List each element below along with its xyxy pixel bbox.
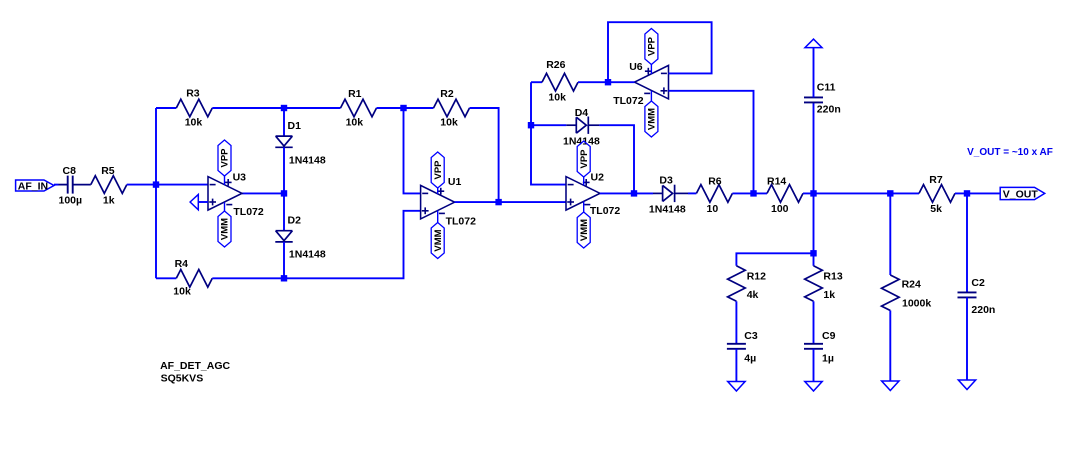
power flag VMM of U1 [431, 211, 444, 259]
wire node A vertical [155, 108, 157, 278]
svg-text:1N4148: 1N4148 [289, 248, 326, 260]
wire bottom rail left [156, 277, 176, 279]
wire R1 to R2 [377, 107, 434, 109]
svg-text:1N4148: 1N4148 [563, 136, 600, 148]
power arrow supply symbol [805, 39, 822, 48]
svg-text:C8: C8 [63, 165, 77, 177]
junction R1-R2 node [400, 105, 406, 111]
svg-text:C11: C11 [817, 82, 836, 94]
svg-text:D4: D4 [575, 107, 589, 119]
svg-text:U3: U3 [233, 171, 247, 183]
wire R7 to V_OUT [955, 192, 1000, 194]
resistor R4 10k [173, 258, 212, 298]
junction lower branch node [810, 250, 816, 256]
svg-text:R5: R5 [101, 165, 115, 177]
junction V_OUT node [964, 190, 970, 196]
svg-text:10k: 10k [548, 92, 566, 104]
wire U3 output [242, 192, 284, 194]
op-amp U1 TL072 [421, 176, 477, 227]
capacitor C11 220n [804, 82, 841, 116]
wire D1 cathode [283, 147, 285, 193]
svg-text:R2: R2 [440, 88, 454, 100]
svg-text:1µ: 1µ [822, 353, 834, 365]
wire C9 to ground [813, 349, 815, 382]
wire R14 to R7 [803, 192, 919, 194]
svg-text:VPP: VPP [579, 149, 590, 169]
wire U2 output to D3 [600, 192, 663, 194]
svg-text:R7: R7 [929, 174, 943, 186]
wire R1-R2 node to U1 - input [404, 108, 421, 193]
power flag VMM of U3 [218, 202, 231, 247]
svg-text:220n: 220n [971, 304, 995, 316]
power flag VPP of U3 [218, 140, 231, 185]
wire R24 to ground [889, 311, 891, 382]
resistor R26 10k [542, 59, 578, 104]
svg-text:VPP: VPP [647, 36, 658, 56]
junction R6-R14 node [750, 190, 756, 196]
svg-text:100: 100 [771, 203, 789, 215]
svg-text:10k: 10k [173, 286, 191, 298]
junction D4 branch [528, 122, 534, 128]
node A junction [153, 181, 159, 187]
power flag VMM of U2 [577, 201, 590, 248]
wire R12 to C3 [735, 301, 737, 344]
wire C11 top [813, 48, 815, 98]
svg-text:1k: 1k [823, 289, 835, 301]
svg-text:VPP: VPP [433, 160, 444, 180]
wire R2 to U1 output [470, 108, 499, 202]
wire to R12 top [736, 253, 813, 265]
wire C3 to ground [735, 349, 737, 382]
junction U2 output node [631, 190, 637, 196]
op-amp U6 TL072 [613, 61, 668, 107]
wire R26 left [531, 81, 542, 83]
ground below R24 [882, 381, 899, 391]
svg-text:10k: 10k [185, 117, 203, 129]
diode D1 1N4148 [275, 120, 326, 167]
power flag VPP of U2 [577, 141, 590, 185]
resistor R1 10k [341, 88, 377, 129]
wire R24 top [889, 193, 891, 275]
wire R3 to D1 top [212, 107, 340, 109]
wire R13 top [813, 253, 815, 265]
svg-text:C2: C2 [971, 277, 985, 289]
svg-text:AF_DET_AGC: AF_DET_AGC [160, 360, 230, 372]
svg-text:100µ: 100µ [59, 195, 83, 207]
resistor R5 1k [91, 165, 127, 206]
svg-text:AF_IN: AF_IN [18, 180, 48, 192]
diode D2 1N4148 [275, 215, 326, 261]
svg-text:R24: R24 [902, 278, 921, 290]
ground reference at U3 + input [190, 195, 208, 210]
resistor R14 100 [767, 176, 803, 216]
wire R5 to node A [127, 184, 208, 186]
op-amp U3 TL072 [208, 171, 264, 218]
svg-text:C3: C3 [744, 330, 758, 342]
junction U6 output node [605, 79, 611, 85]
svg-text:C9: C9 [822, 330, 836, 342]
port AF_IN [16, 180, 54, 192]
capacitor C2 220n [958, 277, 996, 316]
wire D4 cathode to U2 output [588, 125, 634, 193]
svg-text:SQ5KVS: SQ5KVS [161, 372, 204, 384]
junction R24 tap [887, 190, 893, 196]
svg-text:VMM: VMM [433, 229, 444, 251]
junction D2 bottom [281, 275, 287, 281]
svg-text:10k: 10k [440, 117, 458, 129]
port V_OUT [1000, 187, 1044, 200]
svg-text:VPP: VPP [220, 148, 231, 168]
capacitor C9 1µ [804, 330, 836, 365]
wire C11 bottom [813, 102, 815, 193]
svg-text:R3: R3 [186, 88, 200, 100]
wire R4 to U1 + input [212, 211, 420, 278]
svg-text:D2: D2 [288, 215, 302, 227]
svg-text:U6: U6 [629, 61, 643, 73]
wire U6 + input to main line [669, 91, 754, 194]
svg-text:220n: 220n [817, 103, 841, 115]
diode D3 1N4148 [649, 175, 686, 216]
resistor R7 5k [919, 174, 955, 215]
op-amp U2 TL072 [566, 172, 620, 218]
svg-text:10k: 10k [346, 117, 364, 129]
wire D4 anode [531, 124, 576, 126]
svg-text:R13: R13 [823, 270, 842, 282]
resistor R24 1000k [882, 275, 932, 311]
junction U3 output node [281, 190, 287, 196]
wire D2 cathode [283, 242, 285, 278]
svg-text:R1: R1 [348, 88, 362, 100]
junction D1 top [281, 105, 287, 111]
ground below C2 [958, 380, 975, 390]
capacitor C3 4µ [727, 330, 758, 365]
wire R26 to U6 output node [578, 81, 608, 83]
wire C8 to R5 (component leads) [73, 184, 91, 186]
svg-text:TL072: TL072 [613, 95, 644, 107]
svg-text:D1: D1 [288, 120, 302, 132]
junction C11 tap [810, 190, 816, 196]
wire D2 anode [283, 193, 285, 230]
svg-text:1k: 1k [103, 195, 115, 207]
svg-text:1N4148: 1N4148 [289, 154, 326, 166]
resistor R2 10k [434, 88, 470, 129]
wire U6 feedback loop [608, 22, 712, 82]
wire U1 output to U2 + input [455, 201, 566, 203]
svg-text:TL072: TL072 [446, 215, 477, 227]
svg-text:V_OUT = ~10 x AF: V_OUT = ~10 x AF [967, 147, 1053, 158]
wire C2 top [966, 193, 968, 292]
svg-text:4µ: 4µ [744, 353, 756, 365]
power flag VMM of U6 [645, 91, 658, 137]
wire C2 to ground [966, 297, 968, 380]
wire main to lower node [813, 193, 815, 253]
svg-text:1000k: 1000k [902, 298, 931, 310]
node annotation V_OUT formula [967, 147, 1053, 158]
ground below C9 [805, 382, 822, 392]
svg-text:R4: R4 [175, 258, 189, 270]
svg-text:R14: R14 [767, 176, 786, 188]
wire R13 to C9 [813, 301, 815, 344]
wire R6 to R14 [732, 192, 767, 194]
wire U2 - input vertical [531, 82, 566, 184]
power flag VPP of U6 [645, 29, 658, 75]
junction U1 output node [495, 199, 501, 205]
diode D4 1N4148 [563, 107, 600, 148]
svg-text:VMM: VMM [579, 219, 590, 241]
svg-text:1N4148: 1N4148 [649, 204, 686, 216]
svg-text:V_OUT: V_OUT [1003, 189, 1039, 201]
title text [160, 360, 230, 385]
wire AF_IN to C8 [54, 184, 68, 186]
svg-text:R26: R26 [546, 59, 565, 71]
svg-text:U1: U1 [448, 176, 462, 188]
svg-text:VMM: VMM [647, 108, 658, 130]
svg-text:VMM: VMM [220, 218, 231, 240]
wire D3 to R6 [675, 192, 697, 194]
resistor R13 1k [805, 266, 843, 302]
resistor R12 4k [728, 266, 767, 302]
svg-text:D3: D3 [659, 175, 673, 187]
svg-text:R12: R12 [747, 270, 766, 282]
svg-text:4k: 4k [747, 289, 759, 301]
svg-text:TL072: TL072 [233, 206, 264, 218]
wire U6 output [608, 81, 635, 83]
resistor R6 10 [696, 176, 732, 216]
svg-text:TL072: TL072 [590, 205, 621, 217]
svg-text:R6: R6 [708, 176, 722, 188]
svg-text:5k: 5k [930, 203, 942, 215]
wire top rail left [156, 107, 176, 109]
ground below C3 [728, 382, 745, 392]
svg-text:10: 10 [707, 203, 719, 215]
power flag VPP of U1 [431, 152, 444, 194]
wire D1 anode [283, 108, 285, 136]
resistor R3 10k [176, 88, 212, 129]
svg-text:U2: U2 [591, 172, 605, 184]
capacitor C8 100µ [59, 165, 83, 206]
